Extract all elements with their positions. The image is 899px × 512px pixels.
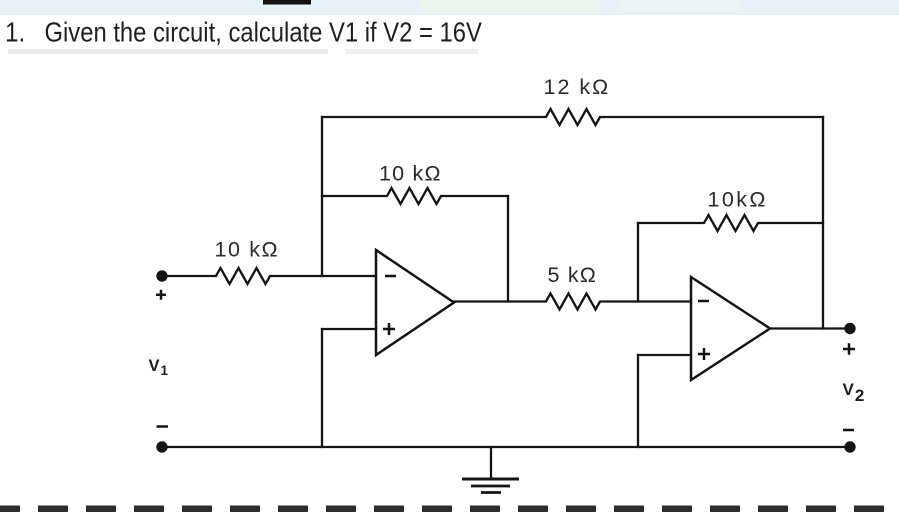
svg-text:10kΩ: 10kΩ bbox=[708, 188, 768, 212]
svg-text:10 kΩ: 10 kΩ bbox=[215, 238, 280, 262]
svg-text:5 kΩ: 5 kΩ bbox=[548, 263, 598, 287]
svg-text:12 kΩ: 12 kΩ bbox=[544, 75, 611, 99]
svg-text:10 kΩ: 10 kΩ bbox=[379, 161, 442, 185]
svg-text:Given the circuit, calculate V: Given the circuit, calculate V1 if V2 = … bbox=[45, 18, 483, 48]
svg-text:1.: 1. bbox=[5, 16, 25, 48]
